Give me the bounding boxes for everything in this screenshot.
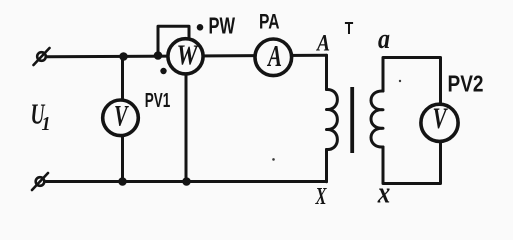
svg-text:PV2: PV2 — [448, 71, 484, 97]
svg-text:x: x — [377, 175, 390, 210]
svg-text:A: A — [267, 38, 282, 73]
svg-text:PW: PW — [209, 13, 236, 39]
svg-text:W: W — [177, 41, 200, 72]
svg-text:1: 1 — [42, 113, 51, 135]
svg-text:a: a — [378, 24, 390, 55]
svg-text:PV1: PV1 — [145, 89, 171, 112]
svg-text:PA: PA — [259, 10, 280, 34]
svg-text:V: V — [114, 100, 130, 133]
svg-text:V: V — [433, 102, 449, 135]
svg-text:T: T — [345, 18, 354, 38]
svg-text:X: X — [315, 184, 327, 210]
svg-text:A: A — [315, 31, 330, 56]
